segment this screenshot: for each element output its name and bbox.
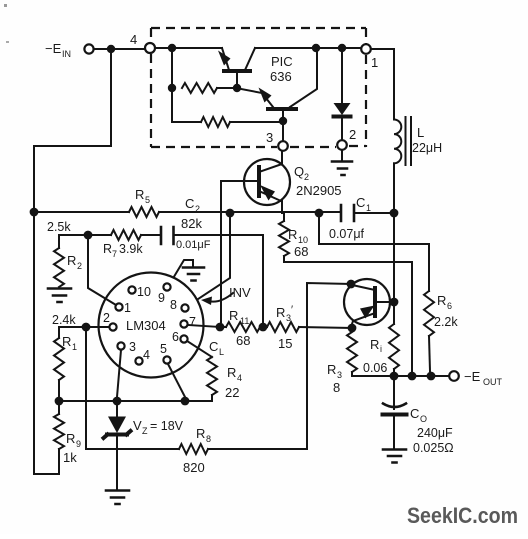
- wire pin6 to R4: [187, 341, 212, 357]
- junction R11/R3/C2 node: [259, 323, 268, 332]
- svg-text:SeekIC.com: SeekIC.com: [407, 503, 518, 528]
- resistor R6 2.2k: [424, 291, 434, 336]
- svg-text:11: 11: [240, 316, 249, 326]
- resistor R10 68: [283, 213, 285, 221]
- svg-text:R: R: [327, 362, 336, 377]
- wire pin5 down: [168, 364, 185, 397]
- junction PIC left rail: [168, 44, 176, 52]
- dashed box PIC636 top edge: [151, 27, 366, 29]
- svg-text:R: R: [66, 431, 75, 446]
- wire to terminal 3: [282, 125, 284, 141]
- svg-text:R: R: [103, 242, 112, 256]
- junction Q1 base / Ri top: [390, 298, 399, 307]
- dashed box left edge: [150, 28, 152, 147]
- ground under CO: [383, 450, 406, 463]
- resistor Rb (T2 base): [201, 117, 230, 127]
- svg-text:R: R: [370, 337, 379, 352]
- wire mid rail left: [34, 211, 129, 213]
- svg-text:1k: 1k: [63, 450, 77, 465]
- resistor R1: [54, 338, 64, 380]
- left rail from input: [34, 49, 111, 474]
- wire bottom common rail: [59, 400, 212, 402]
- pin 7: [180, 320, 187, 327]
- svg-text:2.4k: 2.4k: [52, 313, 76, 327]
- svg-text:R: R: [437, 293, 446, 308]
- pin 8: [181, 304, 188, 311]
- resistor Ri 0.06: [389, 324, 399, 369]
- capacitor CO 240uF: [393, 380, 395, 409]
- junction R5 left: [30, 208, 39, 217]
- junction Q1 emitter / R3: [348, 324, 357, 333]
- op-amp regulator LM304 body: [99, 273, 204, 378]
- junction 2.5k/pin1: [84, 231, 93, 240]
- svg-text:0.07μf: 0.07μf: [329, 227, 365, 241]
- svg-text:2.2k: 2.2k: [434, 315, 458, 329]
- svg-text:−E: −E: [45, 41, 62, 56]
- terminal 3: [278, 141, 288, 151]
- junction T1 base resistor: [168, 84, 176, 92]
- svg-text:68: 68: [236, 333, 250, 348]
- svg-text:R: R: [229, 308, 238, 323]
- svg-text:15: 15: [278, 336, 292, 351]
- svg-text:8: 8: [206, 434, 211, 444]
- wire output rail: [352, 375, 449, 377]
- svg-text:L: L: [219, 347, 224, 357]
- svg-text:Q: Q: [294, 164, 304, 179]
- svg-text:3: 3: [129, 340, 136, 354]
- svg-text:R: R: [67, 253, 76, 268]
- resistor Ra (T1 base): [182, 83, 217, 93]
- transistor Q2 2N2905: [244, 159, 290, 205]
- svg-text:O: O: [420, 414, 427, 424]
- svg-text:4: 4: [143, 348, 150, 362]
- wire pin7 to R11: [188, 325, 220, 327]
- svg-text:9: 9: [76, 439, 81, 449]
- junction 2.4k node: [82, 323, 91, 332]
- svg-text:9: 9: [158, 291, 165, 305]
- svg-text:5: 5: [160, 342, 167, 356]
- terminal 2: [337, 140, 347, 150]
- transistor T2 (PIC636 lower): [268, 107, 296, 111]
- inductor L 22uH: [393, 114, 395, 119]
- transistor T1 (PIC636 upper): [224, 69, 250, 73]
- junction R6 branch tap: [315, 209, 324, 218]
- capacitor C2 0.01uF: [161, 227, 174, 244]
- wire right rail C1 to Ri: [393, 217, 395, 324]
- wire R6 branch: [319, 213, 429, 291]
- pin 1: [115, 303, 122, 310]
- resistor R4 22: [207, 357, 217, 395]
- junction INV tap: [226, 209, 235, 218]
- resistor R9 1k: [54, 414, 64, 449]
- svg-text:LM304: LM304: [126, 318, 166, 333]
- svg-text:V: V: [133, 418, 142, 433]
- svg-text:C: C: [410, 406, 419, 421]
- svg-text:1: 1: [124, 301, 131, 315]
- wire pin3 down: [117, 350, 121, 397]
- node -E_IN input terminal: [84, 44, 93, 53]
- wire node4 to T1 emitter: [155, 47, 222, 49]
- resistor R3 8: [347, 332, 357, 372]
- pin 9: [163, 283, 170, 290]
- svg-text:820: 820: [183, 460, 205, 475]
- svg-text:8: 8: [170, 298, 177, 312]
- svg-text:6: 6: [172, 330, 179, 344]
- wire pin2 to R1: [59, 327, 109, 338]
- svg-text:C: C: [209, 339, 218, 354]
- pin 10: [128, 286, 135, 293]
- svg-text:7: 7: [112, 249, 117, 259]
- svg-text:IN: IN: [62, 49, 71, 59]
- node 4 terminal: [145, 43, 155, 53]
- junction left-rail top: [107, 45, 115, 53]
- wire PIC internal left rail: [172, 48, 182, 122]
- ground under terminal 2: [341, 150, 343, 160]
- resistor R5 82k: [129, 207, 159, 217]
- junction T2 collector at top rail: [312, 44, 320, 52]
- ground under R2: [48, 289, 71, 303]
- svg-text:0.06: 0.06: [363, 361, 387, 375]
- svg-text:68: 68: [294, 244, 308, 259]
- svg-text:2: 2: [349, 127, 356, 142]
- svg-text:82k: 82k: [181, 216, 202, 231]
- svg-text:4: 4: [130, 32, 137, 47]
- svg-text:3: 3: [337, 370, 342, 380]
- svg-text:i: i: [380, 344, 382, 354]
- wire 2.4k node down to R8: [85, 331, 87, 449]
- svg-text:L: L: [417, 125, 424, 140]
- svg-text:2: 2: [304, 172, 309, 182]
- svg-text:−E: −E: [464, 369, 481, 384]
- svg-text:OUT: OUT: [483, 377, 503, 387]
- svg-text:PIC: PIC: [271, 54, 293, 69]
- wire Q2 base: [221, 181, 259, 322]
- svg-text:8: 8: [333, 380, 340, 395]
- svg-text:5: 5: [145, 195, 150, 205]
- svg-text:636: 636: [270, 69, 292, 84]
- pin 6: [180, 335, 187, 342]
- svg-text:22: 22: [225, 385, 239, 400]
- svg-text:= 18V: = 18V: [150, 419, 184, 433]
- svg-text:C: C: [356, 195, 365, 210]
- wire terminal1 to right rail: [371, 49, 394, 114]
- svg-text:R: R: [288, 227, 297, 242]
- svg-text:R: R: [276, 305, 285, 320]
- svg-text:′: ′: [291, 304, 293, 316]
- svg-text:10: 10: [137, 285, 151, 299]
- junction Q1 collector: [347, 280, 356, 289]
- wire input to node 4: [94, 48, 145, 50]
- svg-text:6: 6: [447, 301, 452, 311]
- svg-text:2: 2: [77, 261, 82, 271]
- wire mid rail to C1: [159, 211, 341, 213]
- resistor R3p 15: [267, 322, 299, 332]
- wire 2.5k node: [59, 235, 111, 248]
- svg-text:3: 3: [266, 130, 273, 145]
- wire pin1 to 2.5k node: [88, 239, 116, 305]
- capacitor C1 0.07uF: [341, 205, 354, 221]
- wire R8: [86, 448, 179, 450]
- wire C2 to R11 node: [174, 235, 264, 322]
- resistor R11 68: [226, 322, 260, 332]
- junction diode top: [338, 44, 346, 52]
- speck marks: [4, 4, 7, 7]
- svg-text:2.5k: 2.5k: [47, 220, 71, 234]
- pin 4: [135, 357, 142, 364]
- svg-text:0.025Ω: 0.025Ω: [413, 441, 454, 455]
- pin 3: [117, 342, 124, 349]
- transistor Q1 pass: [344, 279, 390, 325]
- svg-text:Z: Z: [142, 426, 148, 436]
- svg-text:3.9k: 3.9k: [119, 242, 143, 256]
- pin 2: [109, 323, 116, 330]
- wire Q1 base: [375, 301, 394, 303]
- pin 5: [163, 356, 170, 363]
- svg-text:1: 1: [371, 55, 378, 70]
- svg-text:2: 2: [195, 204, 200, 214]
- svg-text:C: C: [185, 196, 194, 211]
- svg-text:0.01μF: 0.01μF: [176, 239, 211, 251]
- svg-text:1: 1: [72, 342, 77, 352]
- dashed box right edge: [365, 28, 367, 147]
- zener diode VZ 18V: [116, 405, 118, 489]
- resistor R8 820: [179, 444, 208, 454]
- ground at pin 9: [169, 260, 193, 285]
- dashed box bottom edge: [151, 146, 366, 147]
- svg-text:22μH: 22μH: [412, 141, 442, 155]
- junction pin7/Q2 base/R11: [216, 323, 225, 332]
- resistor R7 3.9k: [111, 230, 141, 240]
- svg-text:R: R: [135, 187, 144, 202]
- resistor R2: [54, 248, 64, 287]
- svg-text:7: 7: [189, 315, 196, 329]
- svg-text:240μF: 240μF: [417, 426, 453, 440]
- junction T2 emitter node: [279, 117, 287, 125]
- junction C1 right / main right rail: [390, 209, 399, 218]
- ground under zener: [106, 491, 129, 505]
- svg-text:R: R: [227, 365, 236, 380]
- svg-text:2N2905: 2N2905: [296, 183, 342, 198]
- svg-text:2: 2: [103, 311, 110, 325]
- svg-text:R: R: [62, 334, 71, 349]
- svg-text:4: 4: [237, 373, 242, 383]
- terminal 1: [361, 44, 371, 54]
- wire T1 collector to terminal 1: [255, 47, 361, 49]
- wire INV tap to pin 8: [189, 217, 230, 305]
- terminal -E_OUT: [449, 371, 459, 381]
- svg-text:1: 1: [366, 203, 371, 213]
- svg-text:R: R: [196, 426, 205, 441]
- diode CR1 in PIC box: [341, 52, 343, 140]
- junction T1 base / T2 emitter: [233, 84, 241, 92]
